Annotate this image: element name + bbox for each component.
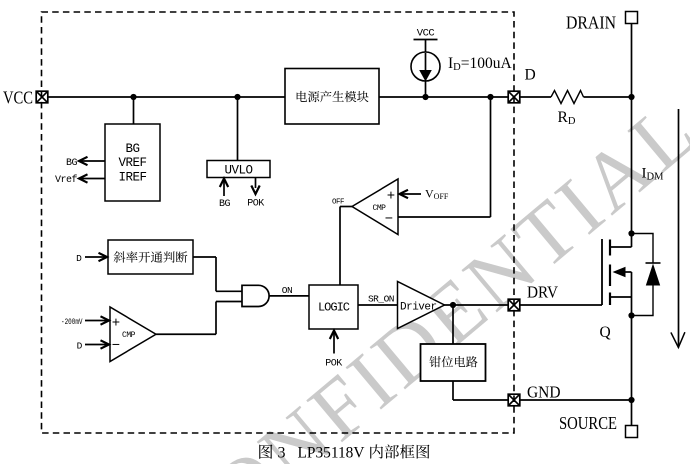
- svg-text:OFF: OFF: [332, 199, 344, 207]
- svg-text:VCC: VCC: [3, 88, 33, 108]
- svg-text:LP35118V: LP35118V: [298, 445, 365, 462]
- svg-text:CMP: CMP: [122, 331, 136, 340]
- svg-text:+: +: [112, 316, 120, 332]
- svg-text:SOURCE: SOURCE: [559, 413, 617, 433]
- svg-text:GND: GND: [527, 383, 561, 402]
- svg-text:−: −: [112, 338, 120, 354]
- svg-text:UVLO: UVLO: [224, 164, 252, 178]
- svg-text:Vref: Vref: [55, 174, 78, 186]
- svg-text:Q: Q: [600, 324, 611, 341]
- svg-text:DRAIN: DRAIN: [566, 13, 616, 33]
- svg-text:3: 3: [278, 445, 286, 462]
- svg-text:IREF: IREF: [118, 171, 146, 185]
- svg-text:+: +: [387, 189, 395, 205]
- svg-text:VREF: VREF: [118, 156, 146, 170]
- svg-text:-200mV: -200mV: [61, 317, 83, 327]
- svg-text:D: D: [77, 341, 83, 352]
- svg-text:D: D: [76, 253, 82, 264]
- svg-text:VCC: VCC: [417, 28, 435, 40]
- svg-text:ON: ON: [282, 285, 292, 296]
- svg-text:−: −: [385, 212, 393, 228]
- svg-text:LOGIC: LOGIC: [318, 301, 350, 315]
- svg-text:Driver: Driver: [400, 302, 437, 314]
- svg-text:DRV: DRV: [527, 283, 558, 302]
- svg-text:BG: BG: [219, 199, 231, 210]
- svg-text:POK: POK: [325, 359, 342, 370]
- svg-text:BG: BG: [66, 158, 78, 169]
- svg-text:CMP: CMP: [373, 204, 387, 213]
- svg-text:SR_ON: SR_ON: [368, 294, 394, 305]
- svg-text:D: D: [525, 67, 536, 84]
- svg-text:POK: POK: [247, 199, 264, 210]
- svg-text:BG: BG: [125, 142, 139, 156]
